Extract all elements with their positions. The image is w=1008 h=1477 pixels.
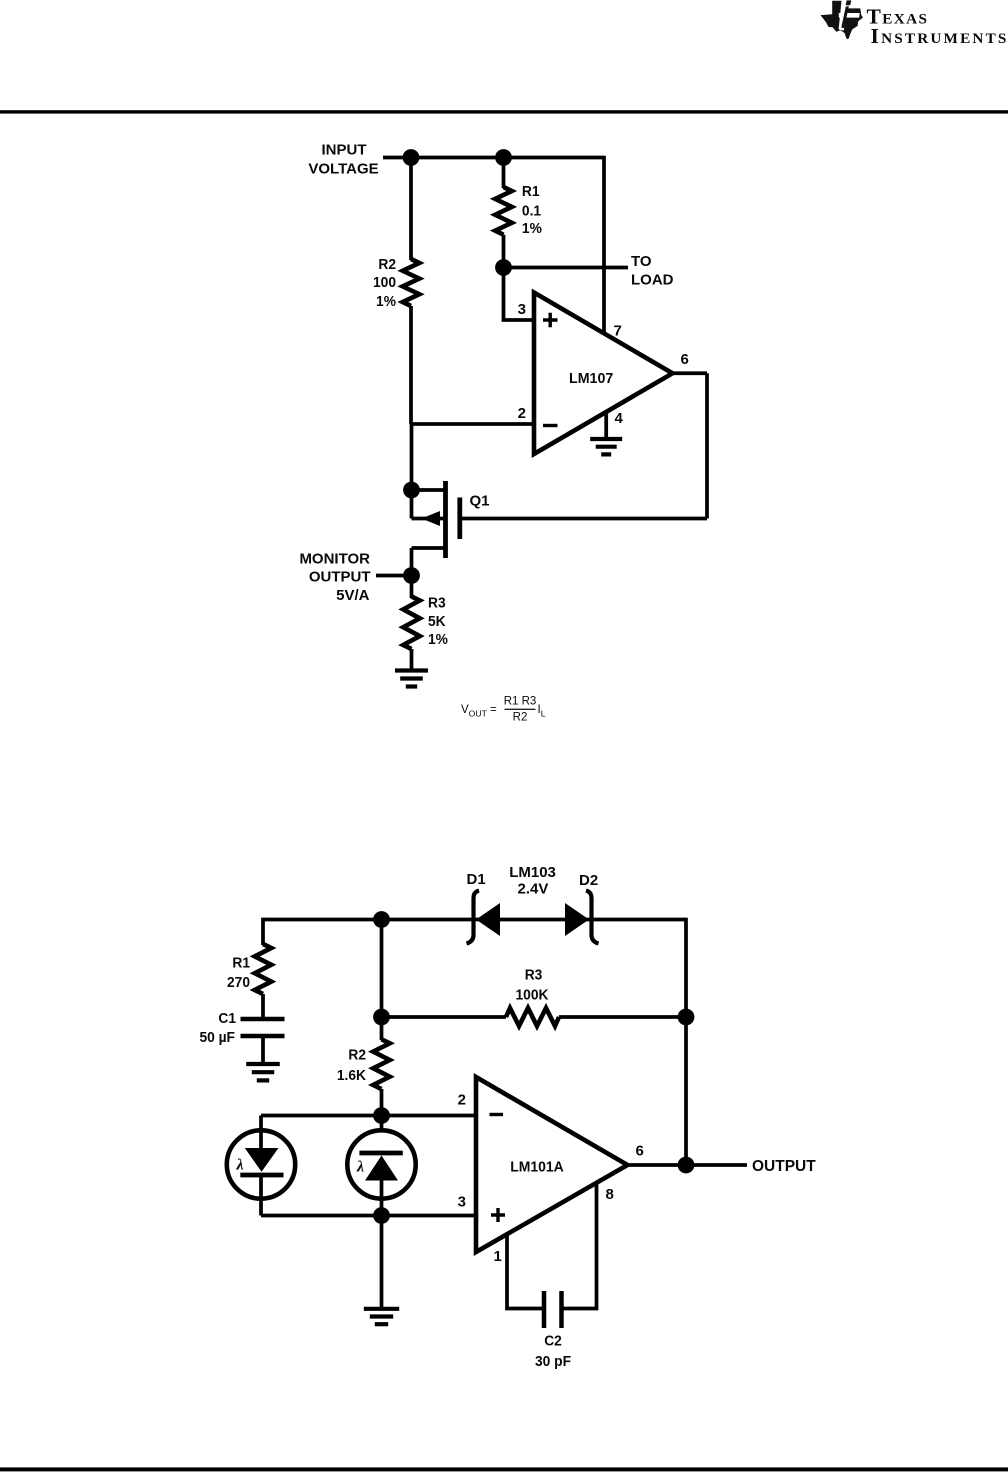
resistor R1 (circuit 2): [255, 944, 272, 994]
svg-text:R1: R1: [232, 955, 250, 972]
wire: to ground (circuit 2): [380, 1199, 384, 1308]
wire: left branch down to R1: [261, 918, 265, 945]
node: input voltage / R1 top: [495, 149, 512, 166]
svg-text:30 pF: 30 pF: [535, 1354, 571, 1371]
wire: R3 bottom lead: [410, 649, 414, 669]
svg-text:C1: C1: [218, 1011, 236, 1028]
wire: photodiode D3 bottom stem: [259, 1199, 263, 1216]
diode D2 (zener, cathode bar): [586, 891, 599, 944]
svg-text:OUTPUT: OUTPUT: [752, 1158, 816, 1175]
svg-text:LM107: LM107: [569, 371, 613, 387]
resistor R1: [495, 187, 512, 235]
wire: left rail to Q1 gate-arrow stub: [410, 424, 414, 519]
svg-text:VOLTAGE: VOLTAGE: [308, 160, 378, 177]
svg-text:R2: R2: [348, 1047, 366, 1064]
capacitor C1 plates: [241, 1017, 285, 1022]
svg-text:λ: λ: [356, 1159, 364, 1176]
svg-text:C2: C2: [544, 1333, 562, 1350]
svg-text:270: 270: [227, 975, 250, 992]
node: monitor output: [403, 567, 420, 584]
svg-text:7: 7: [614, 323, 622, 340]
svg-text:100: 100: [373, 275, 396, 292]
wire: photodiode D3 top stem: [259, 1116, 263, 1132]
wire: pin 8 stem: [562, 1183, 597, 1309]
node: top rail / mid rail junction: [373, 911, 390, 928]
wire: input voltage top rail: [383, 156, 604, 160]
svg-text:50 µF: 50 µF: [199, 1030, 235, 1047]
svg-text:LM103: LM103: [509, 864, 556, 881]
svg-text:λ: λ: [236, 1157, 244, 1174]
op-amp U2 LM101A triangle: [476, 1077, 628, 1252]
wire: output: [628, 1163, 748, 1167]
transistor Q1: channel bar: [443, 481, 448, 558]
formula Vout = R1 R3 / R2 IL: [461, 696, 546, 724]
resistor R3: [403, 597, 420, 650]
op-amp U2 minus input symbol: [490, 1113, 504, 1116]
diode D1 (zener, cathode bar): [467, 891, 480, 944]
svg-text:D1: D1: [467, 871, 486, 888]
wire: pin 3 line: [261, 1214, 476, 1218]
wire: op-amp output to Q1 gate: [460, 517, 708, 521]
op-amp U1 LM107 triangle: [534, 293, 673, 455]
wire: R1 bottom lead: [502, 235, 506, 268]
svg-text:LM101A: LM101A: [510, 1159, 564, 1176]
wire: V+ rail right of R1 down to pin 7: [602, 156, 606, 333]
svg-text:6: 6: [681, 351, 689, 368]
svg-text:5V/A: 5V/A: [336, 587, 370, 604]
wire: R3 left lead: [382, 1015, 507, 1019]
svg-text:1.6K: 1.6K: [337, 1068, 367, 1085]
op-amp U1 plus input symbol: [543, 313, 558, 328]
svg-text:MONITOR: MONITOR: [299, 551, 370, 568]
svg-text:3: 3: [458, 1194, 466, 1211]
svg-text:1: 1: [494, 1248, 502, 1265]
wire: circuit2 top rail: [263, 918, 686, 922]
photodiode D3 circle: [227, 1130, 295, 1198]
svg-text:R3: R3: [525, 967, 543, 984]
svg-text:2: 2: [458, 1092, 466, 1109]
node: mid rail / R3 junction: [373, 1009, 390, 1026]
op-amp U1 minus input symbol: [543, 424, 558, 427]
svg-text:R2: R2: [378, 257, 396, 274]
wire: output pin 6: [673, 371, 708, 375]
wire: R1 to C1: [261, 994, 265, 1017]
svg-text:100K: 100K: [516, 987, 550, 1004]
op-amp U2 plus input symbol: [491, 1208, 505, 1222]
transistor Q1: body arrowhead: [422, 511, 441, 526]
ground at op-amp pin 4: [590, 437, 622, 441]
svg-text:R3: R3: [428, 595, 446, 612]
ground below photodiodes: [364, 1307, 399, 1311]
transistor Q1: body arrow stub: [412, 517, 444, 521]
transistor Q1: gate bar: [457, 498, 462, 540]
wire: pin 2 connection: [411, 422, 534, 426]
wire: R2 bottom to photodiode D4: [380, 1089, 384, 1131]
top horizontal rule: [0, 110, 1008, 113]
wire: pin 4 ground stem: [604, 412, 608, 439]
wire: pin 2 line across photodiodes: [261, 1114, 476, 1118]
svg-text:Q1: Q1: [470, 493, 490, 510]
svg-text:1%: 1%: [376, 294, 396, 311]
photodiode D3 internals: [259, 1131, 263, 1149]
wire: left rail mid (R2 to pin2 node to Q1): [409, 306, 413, 424]
svg-text:R1 R3: R1 R3: [504, 696, 537, 708]
wire: pin 3 connection: [504, 268, 535, 321]
resistor R3 (circuit 2): [506, 1008, 559, 1026]
photodiode D4 circle: [347, 1130, 415, 1198]
svg-text:1%: 1%: [522, 221, 542, 238]
svg-text:8: 8: [606, 1186, 614, 1203]
diode D1 triangle: [476, 903, 500, 936]
svg-text:D2: D2: [579, 872, 598, 889]
svg-text:R2: R2: [513, 712, 528, 724]
wire: feedback right rail: [705, 373, 709, 518]
wire: C1 to ground: [261, 1036, 265, 1062]
node: left rail / Q1 source junction: [403, 482, 420, 499]
node: inverting input junction: [373, 1107, 390, 1124]
wire: pin 1 stem: [507, 1235, 544, 1309]
transistor Q1: source stub: [412, 488, 446, 492]
svg-text:5K: 5K: [428, 614, 446, 631]
transistor Q1: drain stub: [412, 546, 446, 550]
svg-text:6: 6: [636, 1143, 644, 1160]
svg-text:TO: TO: [631, 253, 652, 270]
svg-text:R1: R1: [522, 183, 540, 200]
bottom horizontal rule: [0, 1467, 1008, 1471]
node: R1 bottom / to-load junction: [495, 259, 512, 276]
wire: right rail: [684, 918, 688, 1165]
node: non-inverting junction: [373, 1207, 390, 1224]
wire: left rail upper (to R2): [409, 158, 413, 261]
wire: monitor output stub: [376, 574, 412, 578]
diode D2 triangle: [565, 903, 589, 936]
photodiode D4 internals: [379, 1151, 384, 1155]
node: input voltage / R2 top: [403, 149, 420, 166]
svg-text:3: 3: [518, 301, 526, 318]
node: output: [678, 1157, 695, 1174]
svg-text:INPUT: INPUT: [322, 142, 367, 159]
TI logo Texas-state bug: [821, 0, 863, 39]
ground below R3: [395, 668, 428, 672]
svg-text:4: 4: [615, 410, 624, 427]
svg-text:2.4V: 2.4V: [518, 881, 549, 898]
wire: R3 right lead: [559, 1015, 686, 1019]
capacitor C2 plates: [542, 1291, 547, 1328]
svg-text:2: 2: [518, 405, 526, 422]
wire: to load: [504, 266, 629, 270]
svg-text:LOAD: LOAD: [631, 272, 674, 289]
resistor R2 (circuit 2): [373, 1039, 390, 1089]
svg-text:OUTPUT: OUTPUT: [309, 569, 371, 586]
wire: R3 top lead: [410, 576, 414, 599]
svg-text:0.1: 0.1: [522, 203, 541, 220]
node: R3 right / output rail: [678, 1009, 695, 1026]
svg-text:1%: 1%: [428, 632, 448, 649]
wire: mid rail top (node to R2): [380, 920, 384, 1041]
wire: Q1 drain down to monitor node: [410, 548, 414, 576]
resistor R2: [403, 259, 420, 306]
wire: R1 top lead: [502, 158, 506, 189]
ground below C1: [246, 1062, 280, 1066]
